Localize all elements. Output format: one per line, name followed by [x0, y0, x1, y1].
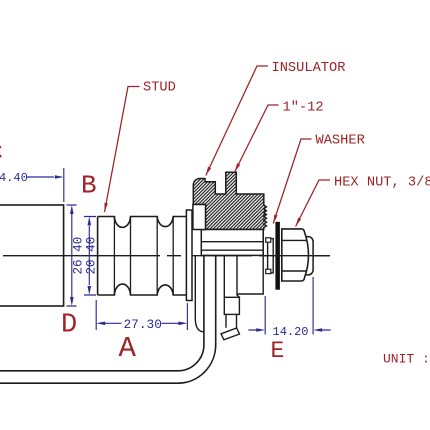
stud groove verticals	[114, 217, 173, 296]
20.40 dim	[84, 217, 96, 296]
svg-text:27.30: 27.30	[124, 317, 162, 332]
svg-text:INSULATOR: INSULATOR	[272, 61, 346, 76]
4.40 dim	[63, 168, 65, 202]
STUD leader	[105, 87, 140, 213]
plate under insulator	[201, 230, 263, 256]
washer (solid)	[275, 222, 280, 290]
centerline	[3, 255, 330, 257]
svg-text:E: E	[271, 338, 285, 364]
bracket leg and bend	[0, 255, 216, 383]
disc flange	[186, 210, 192, 301]
svg-text:B: B	[81, 171, 97, 201]
svg-text:WASHER: WASHER	[316, 134, 365, 149]
centerline through nut	[264, 255, 330, 257]
INSULATOR leader	[206, 66, 268, 176]
WASHER leader	[273, 139, 311, 224]
svg-text:UNIT :: UNIT :	[383, 352, 430, 367]
slot edge hook curving into bracket inner line	[195, 255, 204, 331]
bushing between disc and insulator	[193, 205, 206, 230]
svg-text:26.40: 26.40	[71, 237, 85, 275]
svg-text:4.40: 4.40	[0, 171, 28, 185]
leader arrowheads	[104, 203, 107, 212]
arrowheads	[55, 175, 64, 179]
shoulder stack	[268, 239, 274, 273]
svg-text:C: C	[0, 141, 3, 167]
svg-text:20.40: 20.40	[85, 237, 99, 275]
svg-text:STUD: STUD	[143, 81, 176, 96]
body cylinder left	[0, 205, 64, 306]
svg-text:1"-12: 1"-12	[283, 101, 324, 116]
stud	[98, 217, 187, 296]
insulator (hatched, one piece with tabs and serrated right edge)	[193, 172, 266, 229]
HEX NUT leader	[296, 180, 330, 227]
L piece	[237, 230, 263, 295]
hex nut	[304, 237, 313, 275]
14.20 dim	[265, 277, 313, 335]
svg-text:D: D	[61, 311, 77, 341]
26.40 dim	[67, 205, 77, 306]
svg-text:HEX NUT, 3/8: HEX NUT, 3/8	[334, 176, 430, 191]
svg-text:A: A	[119, 332, 137, 365]
1-12 leader	[235, 105, 279, 172]
svg-text:14.20: 14.20	[273, 325, 309, 339]
strap with joggle and foot	[224, 255, 239, 297]
27.30 dim	[96, 300, 187, 330]
